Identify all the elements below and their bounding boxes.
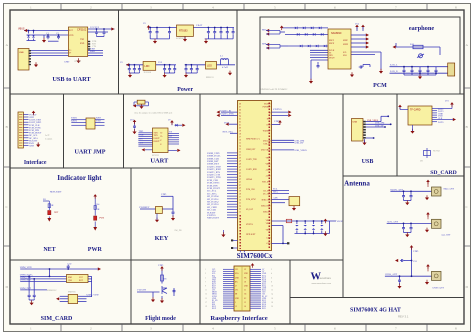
svg-text:8: 8 bbox=[455, 327, 457, 331]
svg-text:USB: USB bbox=[353, 122, 358, 124]
svg-text:61: 61 bbox=[239, 124, 241, 126]
svg-text:ME6211: ME6211 bbox=[206, 77, 214, 79]
svg-text:C1+: C1+ bbox=[160, 133, 163, 135]
svg-text:5: 5 bbox=[235, 302, 236, 304]
svg-text:NETLIGHT: NETLIGHT bbox=[50, 191, 62, 194]
svg-text:PCM: PCM bbox=[373, 83, 387, 89]
svg-text:STATUS: STATUS bbox=[246, 223, 253, 226]
svg-text:ADC: ADC bbox=[273, 197, 278, 200]
svg-text:VBAT: VBAT bbox=[337, 220, 344, 223]
svg-text:RXD: RXD bbox=[90, 50, 95, 53]
svg-text:USB: USB bbox=[19, 52, 24, 54]
svg-text:DCD: DCD bbox=[224, 121, 229, 124]
svg-text:V+: V+ bbox=[160, 140, 162, 142]
svg-text:4: 4 bbox=[212, 327, 214, 331]
svg-text:VCC: VCC bbox=[79, 277, 84, 279]
svg-text:REV 3.1: REV 3.1 bbox=[398, 314, 409, 318]
svg-text:UART_TXD: UART_TXD bbox=[29, 119, 41, 122]
svg-text:AUX_ANT: AUX_ANT bbox=[387, 220, 399, 223]
svg-text:USIM_DET: USIM_DET bbox=[20, 288, 32, 290]
svg-text:MAIN_ANT: MAIN_ANT bbox=[390, 188, 403, 191]
svg-text:XC6206: XC6206 bbox=[144, 72, 152, 74]
svg-text:5: 5 bbox=[274, 327, 276, 331]
svg-text:USB_VBUS: USB_VBUS bbox=[295, 149, 308, 152]
svg-text:47: 47 bbox=[239, 166, 241, 168]
svg-text:VREG: VREG bbox=[265, 163, 271, 165]
svg-text:42: 42 bbox=[239, 181, 241, 183]
svg-text:GND: GND bbox=[235, 298, 240, 300]
svg-text:GND: GND bbox=[244, 273, 249, 275]
svg-text:UART JMP: UART JMP bbox=[75, 150, 106, 156]
svg-text:LDO: LDO bbox=[145, 65, 150, 68]
svg-text:3V3: 3V3 bbox=[235, 269, 238, 271]
svg-text:IIC_SDA: IIC_SDA bbox=[29, 137, 38, 140]
svg-text:16: 16 bbox=[244, 306, 246, 308]
svg-text:GPIO41: GPIO41 bbox=[246, 179, 252, 181]
svg-text:SGM2019: SGM2019 bbox=[176, 38, 185, 40]
svg-text:UART1_RXD: UART1_RXD bbox=[246, 168, 258, 171]
svg-text:2: 2 bbox=[90, 6, 92, 10]
svg-text:FLIGHT: FLIGHT bbox=[138, 289, 147, 292]
svg-text:CLK: CLK bbox=[438, 118, 443, 120]
svg-text:USIM_DET: USIM_DET bbox=[246, 149, 256, 151]
svg-text:9: 9 bbox=[205, 286, 206, 288]
svg-text:38: 38 bbox=[239, 193, 241, 195]
svg-text:C1-: C1- bbox=[160, 136, 163, 138]
svg-text:6: 6 bbox=[334, 6, 336, 10]
svg-text:44: 44 bbox=[239, 175, 241, 177]
svg-text:www.waveshare.com: www.waveshare.com bbox=[312, 282, 332, 285]
svg-text:67: 67 bbox=[239, 106, 241, 108]
svg-text:5V: 5V bbox=[120, 61, 123, 64]
svg-text:SPK: SPK bbox=[262, 43, 267, 46]
svg-text:19: 19 bbox=[205, 306, 207, 308]
svg-text:UART1_TXD: UART1_TXD bbox=[246, 158, 257, 161]
svg-text:KEY: KEY bbox=[155, 235, 169, 242]
svg-text:11: 11 bbox=[205, 290, 207, 292]
svg-text:6: 6 bbox=[334, 327, 336, 331]
svg-text:45: 45 bbox=[239, 172, 241, 174]
svg-text:IO21: IO21 bbox=[262, 308, 266, 310]
svg-text:7: 7 bbox=[395, 327, 397, 331]
svg-text:RTS: RTS bbox=[139, 139, 144, 141]
svg-text:TXD: TXD bbox=[80, 39, 85, 41]
svg-text:USB_VBUS: USB_VBUS bbox=[367, 120, 379, 122]
svg-text:RXD3: RXD3 bbox=[71, 120, 78, 122]
svg-text:14: 14 bbox=[271, 294, 273, 296]
svg-text:USIM_VDD: USIM_VDD bbox=[87, 294, 99, 296]
svg-text:SIM7600X 4G HAT: SIM7600X 4G HAT bbox=[350, 308, 401, 314]
svg-text:CTS: CTS bbox=[139, 142, 144, 144]
svg-text:15: 15 bbox=[205, 298, 207, 300]
svg-text:GND: GND bbox=[64, 61, 69, 64]
svg-text:LDO: LDO bbox=[207, 64, 212, 67]
svg-text:RT9193: RT9193 bbox=[179, 30, 188, 33]
svg-text:SD_CARD: SD_CARD bbox=[430, 170, 457, 176]
svg-text:3: 3 bbox=[150, 327, 152, 331]
svg-text:PCM_SYNC: PCM_SYNC bbox=[246, 199, 257, 201]
svg-text:27: 27 bbox=[235, 286, 237, 288]
svg-text:MICN: MICN bbox=[329, 43, 335, 45]
svg-text:55: 55 bbox=[239, 142, 241, 144]
svg-text:SMF05C: SMF05C bbox=[68, 292, 77, 294]
svg-text:PWRKEY: PWRKEY bbox=[139, 206, 149, 209]
svg-text:RXD: RXD bbox=[80, 43, 85, 45]
svg-text:NET: NET bbox=[54, 212, 59, 214]
svg-text:1K: 1K bbox=[97, 208, 100, 211]
svg-text:VRTC: VRTC bbox=[266, 157, 272, 159]
svg-text:T2IN: T2IN bbox=[154, 135, 159, 137]
svg-text:25: 25 bbox=[244, 290, 246, 292]
svg-text:5V: 5V bbox=[143, 22, 146, 25]
svg-text:SW_PB: SW_PB bbox=[174, 230, 182, 232]
svg-text:4: 4 bbox=[271, 273, 272, 275]
svg-text:4: 4 bbox=[212, 6, 214, 10]
svg-text:12: 12 bbox=[244, 302, 246, 304]
svg-text:32: 32 bbox=[239, 211, 241, 213]
svg-text:13: 13 bbox=[235, 306, 237, 308]
svg-text:NET: NET bbox=[43, 247, 55, 253]
svg-text:46: 46 bbox=[239, 169, 241, 171]
svg-text:65: 65 bbox=[239, 112, 241, 114]
svg-text:GND: GND bbox=[235, 277, 240, 279]
svg-text:33: 33 bbox=[239, 208, 241, 210]
svg-text:48: 48 bbox=[239, 163, 241, 165]
svg-text:VDD: VDD bbox=[158, 264, 163, 267]
svg-text:20: 20 bbox=[271, 306, 273, 308]
svg-text:66: 66 bbox=[239, 109, 241, 111]
svg-text:1: 1 bbox=[205, 269, 206, 271]
svg-text:52: 52 bbox=[239, 151, 241, 153]
svg-text:Indicator light: Indicator light bbox=[57, 174, 102, 182]
svg-text:Antenna: Antenna bbox=[344, 180, 370, 188]
svg-text:PCM_CLK: PCM_CLK bbox=[246, 189, 255, 191]
svg-text:SDA: SDA bbox=[273, 191, 278, 194]
svg-text:earphone: earphone bbox=[409, 25, 435, 32]
svg-text:68: 68 bbox=[239, 103, 241, 105]
svg-text:17: 17 bbox=[205, 302, 207, 304]
svg-text:7: 7 bbox=[205, 281, 206, 283]
svg-text:D-: D- bbox=[69, 53, 71, 55]
svg-text:Raspberry Interface: Raspberry Interface bbox=[210, 315, 267, 322]
svg-text:aveshare: aveshare bbox=[320, 276, 332, 280]
svg-text:36: 36 bbox=[239, 199, 241, 201]
svg-text:53: 53 bbox=[239, 148, 241, 150]
svg-text:41: 41 bbox=[239, 184, 241, 186]
svg-text:CP2102: CP2102 bbox=[77, 27, 87, 31]
svg-text:SIM6320C: SIM6320C bbox=[47, 290, 57, 292]
svg-text:GNSS ANT: GNSS ANT bbox=[432, 287, 444, 290]
svg-text:VDD: VDD bbox=[69, 35, 74, 37]
svg-text:SPKN: SPKN bbox=[343, 44, 349, 46]
svg-text:Flight mode: Flight mode bbox=[145, 316, 176, 322]
svg-text:USB_DP: USB_DP bbox=[295, 142, 305, 145]
svg-text:TXD3: TXD3 bbox=[71, 118, 78, 120]
svg-text:13: 13 bbox=[205, 294, 207, 296]
svg-text:6: 6 bbox=[271, 277, 272, 279]
svg-text:18: 18 bbox=[244, 281, 246, 283]
svg-text:1: 1 bbox=[30, 6, 32, 10]
svg-text:64: 64 bbox=[239, 115, 241, 117]
svg-text:3V3: 3V3 bbox=[235, 290, 238, 292]
svg-text:34: 34 bbox=[239, 205, 241, 207]
svg-text:VBUS: VBUS bbox=[18, 28, 25, 31]
svg-text:16: 16 bbox=[271, 298, 273, 300]
svg-text:5: 5 bbox=[274, 6, 276, 10]
svg-text:USIM_RST: USIM_RST bbox=[20, 279, 32, 281]
svg-text:RXD: RXD bbox=[96, 118, 101, 120]
svg-text:2.54mm: 2.54mm bbox=[45, 138, 53, 140]
svg-text:58: 58 bbox=[239, 133, 241, 135]
svg-text:GNSS_ANT: GNSS_ANT bbox=[385, 273, 398, 276]
svg-text:TX: TX bbox=[169, 132, 172, 134]
svg-text:40: 40 bbox=[239, 187, 241, 189]
svg-text:USB_DP: USB_DP bbox=[375, 125, 384, 127]
svg-text:VDD: VDD bbox=[413, 250, 418, 253]
svg-text:35: 35 bbox=[239, 202, 241, 204]
svg-text:SIM7600Cx-x: SIM7600Cx-x bbox=[246, 138, 261, 141]
svg-text:54: 54 bbox=[239, 145, 241, 147]
svg-text:7: 7 bbox=[395, 6, 397, 10]
svg-text:1: 1 bbox=[30, 327, 32, 331]
svg-text:8: 8 bbox=[455, 6, 457, 10]
svg-text:2x7P: 2x7P bbox=[45, 135, 50, 137]
svg-text:UART: UART bbox=[150, 158, 169, 165]
svg-text:1K: 1K bbox=[51, 204, 54, 207]
svg-text:RX: RX bbox=[169, 136, 173, 138]
svg-text:49: 49 bbox=[239, 160, 241, 162]
svg-text:NC7SZ: NC7SZ bbox=[433, 151, 440, 153]
svg-text:GND: GND bbox=[29, 146, 34, 148]
svg-text:CP2102: CP2102 bbox=[74, 61, 81, 63]
svg-text:NETLIGHT: NETLIGHT bbox=[246, 234, 256, 236]
svg-text:UART_RXD: UART_RXD bbox=[29, 121, 41, 124]
svg-text:3: 3 bbox=[205, 273, 206, 275]
svg-text:NETLIGHT: NETLIGHT bbox=[207, 217, 219, 220]
svg-text:EAR_L: EAR_L bbox=[390, 64, 398, 67]
svg-text:59: 59 bbox=[239, 130, 241, 132]
svg-text:TXD: TXD bbox=[96, 120, 101, 122]
svg-text:Interface: Interface bbox=[24, 160, 47, 166]
svg-text:37: 37 bbox=[239, 196, 241, 198]
svg-text:5V: 5V bbox=[168, 120, 171, 122]
svg-text:50: 50 bbox=[239, 157, 241, 159]
svg-text:39: 39 bbox=[239, 190, 241, 192]
svg-text:SIM_CARD: SIM_CARD bbox=[41, 316, 73, 322]
svg-text:4.7uH: 4.7uH bbox=[222, 66, 228, 69]
svg-text:TF-CARD: TF-CARD bbox=[410, 109, 421, 112]
svg-text:Power: Power bbox=[177, 87, 193, 93]
svg-text:63: 63 bbox=[239, 118, 241, 120]
svg-text:10: 10 bbox=[271, 286, 273, 288]
svg-text:12: 12 bbox=[271, 290, 273, 292]
svg-text:2: 2 bbox=[90, 327, 92, 331]
svg-text:CLK: CLK bbox=[68, 280, 73, 282]
svg-text:Aux ANT: Aux ANT bbox=[441, 234, 451, 237]
svg-text:VBAT: VBAT bbox=[196, 24, 203, 27]
svg-text:57: 57 bbox=[239, 136, 241, 138]
svg-text:VCC3V3: VCC3V3 bbox=[90, 26, 100, 29]
svg-text:2: 2 bbox=[271, 269, 272, 271]
svg-text:GND: GND bbox=[244, 286, 249, 288]
svg-text:SD_DAT: SD_DAT bbox=[246, 208, 254, 211]
svg-text:8: 8 bbox=[271, 281, 272, 283]
svg-text:43: 43 bbox=[239, 178, 241, 180]
svg-text:RXD: RXD bbox=[139, 135, 144, 137]
svg-text:56: 56 bbox=[239, 139, 241, 141]
svg-text:VDD: VDD bbox=[274, 120, 279, 123]
svg-text:IO19: IO19 bbox=[212, 308, 216, 310]
svg-text:EAR_R: EAR_R bbox=[390, 70, 398, 73]
svg-text:STATUS: STATUS bbox=[273, 108, 282, 111]
svg-text:USB to UART: USB to UART bbox=[52, 76, 91, 83]
svg-text:close the jumper to enable RS2: close the jumper to enable RS232 DB9 por… bbox=[134, 113, 173, 115]
svg-text:TXD: TXD bbox=[139, 131, 144, 133]
svg-text:PWR: PWR bbox=[99, 217, 104, 219]
svg-text:60: 60 bbox=[239, 127, 241, 129]
svg-text:5: 5 bbox=[205, 277, 206, 279]
svg-text:SDA: SDA bbox=[343, 54, 348, 57]
svg-text:DOUT: DOUT bbox=[329, 58, 335, 60]
svg-text:PWR: PWR bbox=[88, 247, 103, 253]
svg-text:3: 3 bbox=[150, 6, 152, 10]
svg-text:62: 62 bbox=[239, 121, 241, 123]
svg-text:MIC: MIC bbox=[262, 29, 267, 32]
svg-text:SIM7600Cx: SIM7600Cx bbox=[237, 252, 273, 260]
svg-text:I2C_SCL: I2C_SCL bbox=[263, 190, 271, 192]
svg-text:SIM7600CxxB-TE PCM&I2C: SIM7600CxxB-TE PCM&I2C bbox=[261, 89, 288, 91]
svg-text:USB: USB bbox=[362, 159, 374, 165]
svg-text:NET_STA: NET_STA bbox=[223, 130, 233, 133]
svg-text:51: 51 bbox=[239, 154, 241, 156]
svg-text:VDD: VDD bbox=[161, 193, 166, 196]
svg-text:USIM_VDD: USIM_VDD bbox=[20, 267, 32, 269]
svg-text:DAT0: DAT0 bbox=[438, 121, 444, 124]
svg-text:18: 18 bbox=[271, 302, 273, 304]
svg-text:UART1_DTR: UART1_DTR bbox=[220, 113, 234, 116]
svg-text:SIM: SIM bbox=[68, 277, 72, 279]
svg-text:Main ANT: Main ANT bbox=[444, 188, 455, 191]
svg-text:NAU8810: NAU8810 bbox=[331, 32, 342, 35]
svg-text:USB_DM: USB_DM bbox=[375, 123, 384, 125]
